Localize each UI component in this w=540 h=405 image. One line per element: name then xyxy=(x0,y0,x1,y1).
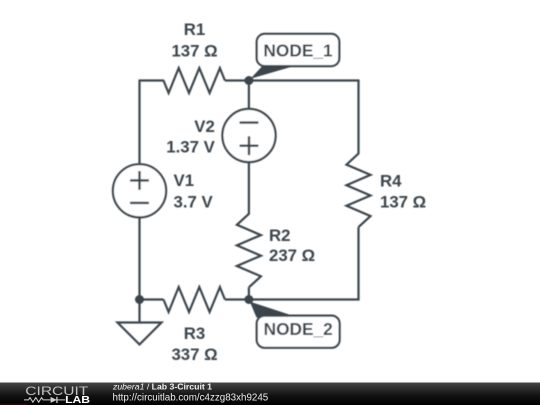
callout NODE_2 xyxy=(249,300,340,348)
wire top-left horizontal xyxy=(140,79,165,81)
svg-text:zubera1 / Lab 3-Circuit 1: zubera1 / Lab 3-Circuit 1 xyxy=(112,381,212,391)
ground xyxy=(118,300,162,345)
wire right vertical upper xyxy=(357,80,359,155)
wire node B to R3 xyxy=(225,298,249,300)
svg-text:337 Ω: 337 Ω xyxy=(171,345,217,364)
footer accent strip xyxy=(0,404,28,405)
resistor R3 xyxy=(164,287,225,312)
wire node A to V2 top xyxy=(248,81,250,111)
footer bar xyxy=(0,383,540,405)
node A junction dot xyxy=(244,76,253,85)
svg-text:137 Ω: 137 Ω xyxy=(380,192,426,211)
wire node A to top-right corner xyxy=(249,79,360,81)
svg-text:NODE_1: NODE_1 xyxy=(263,41,333,61)
svg-text:R4: R4 xyxy=(380,172,402,191)
svg-text:R1: R1 xyxy=(184,20,205,39)
wire R2 to node B xyxy=(248,287,250,299)
resistor R4 xyxy=(347,154,371,228)
wire R3 to ground node xyxy=(140,298,164,300)
svg-text:1.37 V: 1.37 V xyxy=(166,138,215,157)
logo diode triangle xyxy=(51,397,57,403)
svg-text:R3: R3 xyxy=(184,324,205,343)
callout NODE_1 xyxy=(249,34,339,81)
svg-text:NODE_2: NODE_2 xyxy=(264,319,333,339)
logo resistor-diode squiggle xyxy=(24,397,65,403)
svg-text:http://circuitlab.com/c4zzg83x: http://circuitlab.com/c4zzg83xh9245 xyxy=(113,393,269,404)
wire right vertical lower xyxy=(357,227,359,300)
svg-text:137 Ω: 137 Ω xyxy=(171,42,217,61)
wire V2 bottom to R2 xyxy=(248,161,250,215)
wire bottom right horizontal xyxy=(249,298,360,300)
svg-text:V2: V2 xyxy=(194,117,215,136)
svg-text:V1: V1 xyxy=(174,171,195,190)
wire R1 to node A xyxy=(225,79,249,81)
resistor R1 xyxy=(164,68,225,93)
resistor R2 xyxy=(237,214,261,287)
svg-text:237 Ω: 237 Ω xyxy=(269,246,315,265)
svg-text:R2: R2 xyxy=(269,226,290,245)
node B junction dot xyxy=(244,295,253,304)
ground junction dot xyxy=(135,295,144,304)
wire left vertical upper xyxy=(138,80,140,166)
svg-text:3.7 V: 3.7 V xyxy=(174,193,214,212)
voltage source V1 xyxy=(113,164,166,217)
wire V1 bottom xyxy=(138,217,140,301)
svg-text:LAB: LAB xyxy=(65,395,90,405)
voltage source V2 xyxy=(222,109,275,162)
